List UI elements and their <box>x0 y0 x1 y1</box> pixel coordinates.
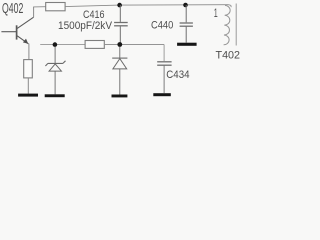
wire: collector vertical <box>33 7 35 17</box>
transformer T402 pin label 1 <box>214 6 218 20</box>
node junction (zener tap) <box>53 42 58 47</box>
wire: mid rail right segment <box>104 44 164 46</box>
wire: top rail right segment <box>120 4 229 6</box>
value label 1500pF/2kV <box>58 20 113 32</box>
svg-text:1: 1 <box>214 6 218 20</box>
capacitor C416 <box>114 5 128 44</box>
ground (emitter resistor) <box>18 94 38 97</box>
wire: resistor to ground <box>27 78 29 94</box>
svg-text:Q402: Q402 <box>2 0 23 17</box>
svg-text:C434: C434 <box>166 69 189 81</box>
ground (diode) <box>112 95 128 98</box>
capacitor C434 label <box>166 69 189 81</box>
capacitor C440 label <box>151 19 173 31</box>
capacitor C440 <box>180 5 193 43</box>
zener diode <box>45 47 65 95</box>
capacitor C416 label <box>83 9 105 21</box>
resistor (series, collector rail) <box>46 3 65 11</box>
transistor Q402 reference label <box>2 0 23 17</box>
wire: mid rail left segment <box>40 44 85 46</box>
transistor Q402 (NPN) <box>1 17 33 44</box>
capacitor C434 <box>157 62 171 93</box>
transformer T402 label <box>216 49 241 61</box>
svg-text:C440: C440 <box>151 19 173 31</box>
wire: top rail middle segment <box>65 5 119 7</box>
ground (C440) <box>177 43 197 46</box>
ground (zener) <box>45 94 65 97</box>
wire: mid rail corner down to C434 <box>163 45 165 62</box>
svg-text:T402: T402 <box>216 49 241 61</box>
node junction (C440 tap) <box>183 3 188 8</box>
transformer T402 primary winding <box>224 5 232 45</box>
node junction (C416 bottom / diode) <box>117 42 122 47</box>
diode (damper) <box>112 47 127 95</box>
resistor (series, mid rail) <box>85 41 104 49</box>
ground (C434) <box>153 93 171 96</box>
svg-text:1500pF/2kV: 1500pF/2kV <box>58 20 113 32</box>
transformer T402 core line <box>235 4 237 46</box>
wire: top rail left segment <box>33 6 46 8</box>
wire: emitter vertical to resistor <box>28 44 30 60</box>
node junction (C416 top) <box>117 3 122 8</box>
resistor (emitter network, vertical) <box>24 60 33 78</box>
